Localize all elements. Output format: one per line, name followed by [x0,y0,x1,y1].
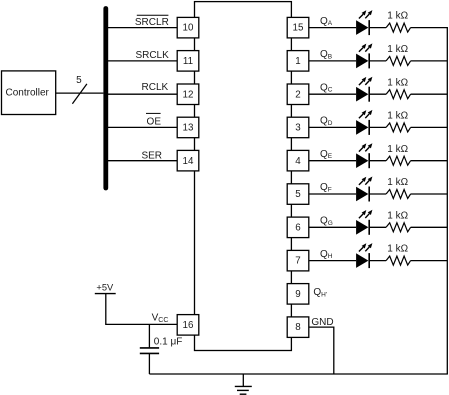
wire GND pin to bottom rail [309,327,334,375]
pin box 6 [287,217,309,238]
control signal bus (thick) [103,9,108,189]
svg-text:5: 5 [76,75,82,86]
wire resistor R6 to rail [411,193,448,195]
LED D6 [356,177,372,202]
pin box 14 [177,150,199,171]
resistor R7 zigzag [386,223,411,232]
wire bottom ground rail [149,373,448,375]
net label RCLK [142,82,169,93]
wire resistor R3 to rail [411,93,448,95]
svg-text:4: 4 [295,156,301,167]
net label QC [320,82,333,93]
svg-text:+5V: +5V [96,283,114,293]
resistor R2 zigzag [386,56,411,65]
wire resistor R7 to rail [411,226,448,228]
bus-width slash [72,84,87,104]
svg-text:8: 8 [295,322,301,333]
svg-text:3: 3 [295,123,301,134]
net label QA [320,16,333,27]
svg-text:RCLK: RCLK [142,82,169,93]
svg-text:OE: OE [147,117,162,128]
wire pin to LED D8 [309,260,356,262]
svg-text:12: 12 [183,89,194,100]
LED D7 [356,210,372,235]
net label VCC [152,312,169,324]
wire pin to LED D2 [309,60,356,62]
LED D4 [356,110,372,135]
capacitor C1 0.1 uF [140,324,159,374]
wire pin to LED D1 [309,27,356,29]
value label 1 kOhm R8 [387,244,408,255]
wire LED to resistor R7 [370,226,386,228]
pin box 4 [287,150,309,171]
net label QB [320,49,332,60]
wire LED to resistor R4 [370,126,386,128]
svg-text:2: 2 [295,89,300,100]
wire LED to resistor R1 [370,27,386,29]
net label OE [146,113,161,127]
net label QD [320,116,333,127]
value label 1 kOhm R6 [387,177,408,188]
svg-text:1 kΩ: 1 kΩ [387,210,408,221]
wire +5V to VCC pin 16 [105,323,177,325]
resistor R6 zigzag [386,190,411,199]
svg-text:1 kΩ: 1 kΩ [387,77,408,88]
resistor R5 zigzag [386,156,411,165]
value label 1 kOhm R7 [387,210,408,221]
svg-text:SRCLR: SRCLR [135,17,169,28]
pin box 7 [287,250,309,271]
wire pin to LED D7 [309,226,356,228]
wire resistor R2 to rail [411,60,448,62]
net label QF [320,182,332,193]
svg-text:1 kΩ: 1 kΩ [387,177,408,188]
svg-text:7: 7 [295,256,300,267]
value label 1 kOhm R4 [387,111,408,122]
pin box 3 [287,117,309,138]
pin box 8 [287,317,309,338]
net label QG [320,216,333,227]
value label 0.1 uF [154,336,183,347]
net label SRCLR [135,15,169,28]
resistor R1 zigzag [386,23,411,32]
value label 1 kOhm R1 [387,11,408,22]
pin box 16 (VCC) [177,315,199,336]
wire bus to pin 13 (OE) [108,126,177,128]
wire LED to resistor R3 [370,93,386,95]
pin box 12 [177,84,199,105]
svg-text:0.1 μF: 0.1 μF [154,336,183,347]
svg-text:SRCLK: SRCLK [135,50,169,61]
resistor R4 zigzag [386,123,411,132]
wire bus to pin 10 (SRCLR) [108,27,177,29]
net label QH [320,249,333,260]
value label 1 kOhm R2 [387,44,408,55]
wire LED to resistor R8 [370,260,386,262]
wire LED to resistor R5 [370,160,386,162]
svg-text:1 kΩ: 1 kΩ [387,44,408,55]
svg-text:Controller: Controller [6,88,50,99]
wire bus to pin 12 (RCLK) [108,93,177,95]
svg-text:6: 6 [295,222,301,233]
svg-text:1 kΩ: 1 kΩ [387,244,408,255]
wire resistor R1 to rail [411,27,448,29]
wire resistor R8 to rail [411,260,448,262]
IC 74HC595 body outline [195,2,292,351]
pin box 10 [177,17,199,38]
wire resistor R5 to rail [411,160,448,162]
wire LED to resistor R6 [370,193,386,195]
LED D2 [356,43,372,68]
value label 1 kOhm R5 [387,144,408,155]
resistor R3 zigzag [386,90,411,99]
wire controller to bus [56,92,104,94]
svg-text:1 kΩ: 1 kΩ [387,111,408,122]
net label QE [320,149,333,160]
svg-text:5: 5 [295,189,301,200]
LED D8 [356,243,372,268]
wire pin to LED D6 [309,193,356,195]
wire pin to LED D3 [309,93,356,95]
label 5 (bus width) [76,75,82,86]
pin box 9 [287,284,309,305]
pin box 2 [287,84,309,105]
svg-text:10: 10 [183,23,194,34]
resistor R8 zigzag [386,256,411,265]
wire pin to LED D4 [309,126,356,128]
pin box 11 [177,51,199,72]
ground symbol [235,374,252,394]
LED D5 [356,143,372,168]
pin box 15 [287,17,309,38]
svg-text:16: 16 [183,320,194,331]
net label SER [141,150,162,161]
svg-text:SER: SER [141,150,162,161]
svg-text:15: 15 [293,23,304,34]
+5V supply symbol [95,283,116,325]
net label GND [311,317,333,328]
svg-text:9: 9 [295,289,300,300]
LED D3 [356,77,372,102]
wire pin to LED D5 [309,160,356,162]
controller box [2,71,56,115]
pin box 5 [287,184,309,205]
net label SRCLK [135,50,169,61]
value label 1 kOhm R3 [387,77,408,88]
svg-text:1 kΩ: 1 kΩ [387,11,408,22]
svg-text:1: 1 [295,56,300,67]
net label QH' (pin 9) [313,287,327,299]
svg-text:GND: GND [311,317,333,328]
pin box 13 [177,117,199,138]
svg-text:14: 14 [183,156,194,167]
svg-text:13: 13 [183,123,194,134]
wire bus to pin 14 (SER) [108,160,177,162]
wire right rail (LED cathode return) [446,27,448,374]
wire resistor R4 to rail [411,126,448,128]
svg-text:11: 11 [183,56,193,67]
svg-text:1 kΩ: 1 kΩ [387,144,408,155]
wire LED to resistor R2 [370,60,386,62]
pin box 1 [287,51,309,72]
wire bus to pin 11 (SRCLK) [108,60,177,62]
LED D1 [356,10,372,35]
